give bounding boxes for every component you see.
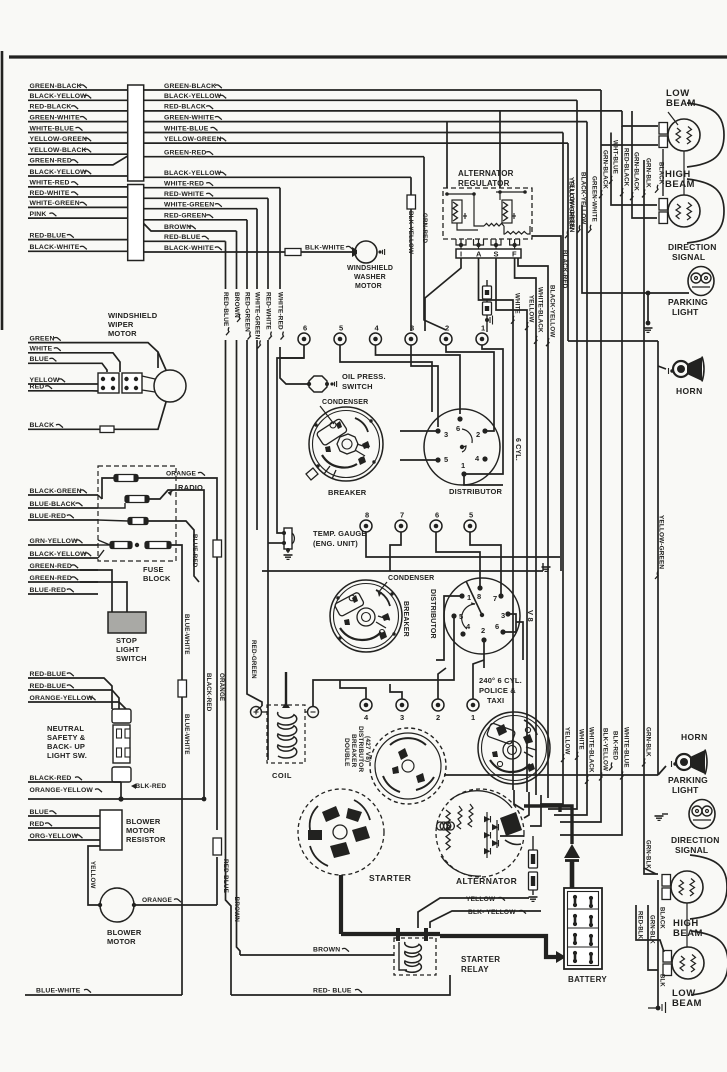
wire regulator I to harness [425,258,461,331]
svg-text:ALTERNATOR: ALTERNATOR [458,169,514,178]
wire BLACK-YELLOW (engine side) [144,176,411,178]
wire BROWN (engine side) [144,224,237,232]
fuse 4 [110,542,132,549]
svg-text:NEUTRAL: NEUTRAL [47,724,84,733]
svg-text:RED-GREEN: RED-GREEN [164,213,206,220]
svg-text:A: A [476,250,482,259]
wire BROWN vertical [236,231,238,289]
wire between lamps [683,151,685,195]
wire RED-BLUE long vertical to bottom [226,340,232,995]
wire BLACK-RED drop [532,236,561,571]
connector on ORANGE wire lower [213,838,222,855]
terminal 6 V8 row [430,520,442,532]
wire BLACK-YELLOW drop [548,100,577,809]
terminal 5 ignition row [334,333,346,345]
svg-text:LIGHT: LIGHT [672,307,699,317]
svg-text:2: 2 [476,430,480,439]
svg-text:GRN-BLK: GRN-BLK [649,915,655,944]
svg-text:WHITE-BLUE: WHITE-BLUE [623,727,630,768]
svg-text:HORN: HORN [676,386,703,396]
svg-text:BLACK-GREEN: BLACK-GREEN [30,488,82,495]
svg-text:BLACK-RED: BLACK-RED [30,775,72,782]
wire V8 dist 5 down [453,616,455,652]
svg-text:TAXI: TAXI [487,696,504,705]
breaker housing tab [306,468,318,480]
svg-text:BLACK: BLACK [659,907,665,929]
wire regulator A down [479,258,514,790]
wire WHITE-BLUE (engine side) [144,132,563,134]
svg-text:BLUE: BLUE [30,809,50,816]
svg-text:F: F [512,250,517,259]
fuse 5 [145,542,171,549]
svg-text:YELLOW-BLACK: YELLOW-BLACK [30,147,87,154]
svg-text:WHITE-BLACK: WHITE-BLACK [537,287,544,333]
svg-text:BLUE: BLUE [30,356,50,363]
coil minus terminal [308,707,319,718]
wire RED-BLACK (engine side) [144,110,622,112]
svg-text:COIL: COIL [272,771,292,780]
wire GREEN-BLACK (engine side) [144,89,601,91]
wire WHITE-RED (engine side) [144,187,280,189]
wire distributor 6cyl tail [464,474,503,485]
stop light switch [108,612,146,633]
wire between lower lamps [686,903,688,947]
svg-text:4: 4 [466,622,471,631]
svg-text:BREAKER: BREAKER [328,488,367,497]
svg-text:WHITE-RED: WHITE-RED [164,181,204,188]
wire GREEN-RED to stop light switch [80,570,112,612]
svg-text:240° 6 CYL.: 240° 6 CYL. [479,676,522,685]
svg-text:WHITE: WHITE [514,293,521,314]
wire YELLOW-GREEN drop [567,143,569,341]
wire GREEN-RED (left column) [28,156,128,165]
oil pressure switch [309,376,327,392]
horn (lower) [676,754,692,770]
wire WHITE-RED (left column) [28,186,128,188]
svg-text:3: 3 [400,713,404,722]
svg-text:DIRECTION: DIRECTION [668,242,717,252]
svg-text:DISTRIBUTOR: DISTRIBUTOR [429,589,436,639]
terminal 7 V8 row [395,520,407,532]
fusible link chain above terminal 1 [486,280,488,332]
direction signal / parking lamp (top) [688,267,714,296]
wire regulator to bus link 1 [446,122,448,188]
relay feed wires [418,898,529,928]
wire terminal 7 down [390,532,401,571]
svg-text:BLUE-BLACK: BLUE-BLACK [30,501,76,508]
wire V8 dist 3/6 to right [503,614,516,632]
wire coil minus up to V8 distributor [313,652,454,706]
svg-text:1: 1 [461,461,465,470]
wire V8 dist 2 down [483,640,485,668]
breaker rim details (V8) [336,596,339,599]
wire terminal 4 run [376,345,461,414]
svg-text:RED-BLUE: RED-BLUE [222,859,229,893]
svg-text:GRN-BLACK: GRN-BLACK [633,152,640,191]
wire WHITE-GREEN (engine side) [144,208,257,210]
wire RED-BLUE bottom run [231,975,450,995]
svg-text:5: 5 [469,511,473,520]
svg-text:GRN-BLK: GRN-BLK [645,158,652,188]
wire BLUE-WHITE bottom run [25,994,182,996]
svg-text:GRN-YELLOW: GRN-YELLOW [30,538,79,545]
svg-text:SIGNAL: SIGNAL [672,252,705,262]
wire BLUE-RED (fuse block feed) [28,593,98,595]
svg-text:LIGHT SW.: LIGHT SW. [47,751,87,760]
svg-text:ORANGE: ORANGE [218,673,225,701]
wire BLUE-RED (fuse block feed) [28,519,98,521]
wire terminal 6 down [436,532,480,588]
bulkhead connector bar upper [128,85,144,181]
wire RED-BLACK drop [622,111,658,126]
wiper connector block left [98,373,119,393]
svg-text:DISTRIBUTOR: DISTRIBUTOR [357,726,364,772]
wire YELLOW-GREEN (engine side) [144,142,568,144]
wire BLACK-WHITE (left column) [28,250,128,252]
ground at parking lamp [644,327,653,329]
svg-text:V 8: V 8 [526,610,535,622]
wire GREEN-WHITE (left column) [28,121,128,123]
svg-text:DISTRIBUTOR: DISTRIBUTOR [449,487,502,496]
wire RED-BLUE (engine side) [144,240,226,242]
wire YELLOW-BLACK (left column) [28,153,128,155]
svg-text:GREEN-RED: GREEN-RED [164,150,206,157]
svg-text:POLICE &: POLICE & [479,686,516,695]
svg-text:RED-BLUE: RED-BLUE [30,683,67,690]
wire yellow run to relay [523,806,525,810]
svg-text:S: S [494,250,499,259]
alternator regulator dashed box [443,188,532,239]
svg-text:2: 2 [445,324,449,333]
svg-text:BLOCK: BLOCK [143,574,171,583]
terminal 1 ignition row [476,333,488,345]
wire WHITE wiper [28,353,120,372]
terminal 8 V8 row [360,520,372,532]
svg-text:RESISTOR: RESISTOR [126,835,166,844]
wire BLUE-BLACK (fuse block feed) [28,507,98,509]
svg-text:5: 5 [444,455,448,464]
svg-text:BREAKER: BREAKER [350,734,357,768]
wire lower terminal 4 up [340,680,366,699]
terminal 6 ignition row [298,333,310,345]
svg-text:RED-BLUE: RED-BLUE [30,232,67,239]
wire WHITE-RED lower to oil switch [280,347,309,384]
svg-text:WHITE: WHITE [578,729,585,750]
svg-text:ORANGE: ORANGE [166,471,196,478]
svg-text:GREEN: GREEN [30,335,55,342]
wire lower terminal 3 up [390,684,402,699]
svg-text:2: 2 [481,626,485,635]
svg-text:LIGHT: LIGHT [116,645,140,654]
wire BLACK-GREEN (fuse block feed) [28,494,98,496]
svg-text:BEAM: BEAM [672,998,702,1009]
svg-text:BLACK-YELLOW: BLACK-YELLOW [30,169,88,176]
alternator body [436,789,524,877]
svg-text:BLUE-WHITE: BLUE-WHITE [183,714,190,755]
wire BLACK-YELLOW (left column) [28,99,128,101]
svg-text:BLK: BLK [659,974,665,987]
direction signal headlamp (lower) [662,875,671,887]
svg-text:WHITE-GREEN: WHITE-GREEN [254,292,261,340]
svg-text:YELLOW: YELLOW [89,861,96,889]
wire V8 dist 1 to left [436,596,462,660]
wire mid horizontal run [262,570,543,572]
svg-text:6: 6 [435,511,439,520]
svg-text:WIPER: WIPER [108,320,134,329]
svg-text:PINK: PINK [30,211,47,218]
wire WHITE-RED vertical [279,188,281,289]
svg-text:BLACK-YELLOW: BLACK-YELLOW [164,93,222,100]
svg-text:BLACK-YELLOW: BLACK-YELLOW [549,285,556,337]
fuse block dashed box [98,466,176,561]
wire high-beam stub 1 [611,133,657,206]
svg-text:MOTOR: MOTOR [107,937,136,946]
svg-text:RED: RED [30,384,45,391]
svg-text:BLK- YELLOW: BLK- YELLOW [468,909,516,916]
wire BLUE (blower) [28,815,100,817]
wire terminal 8 down [366,532,560,557]
wire into fuse4 [98,540,110,545]
breaker points detail (6cyl) [355,444,369,456]
connector on BLACK-YELLOW regulator wire [407,195,416,209]
wire BLACK-YELLOW to regulator area [410,177,412,331]
svg-text:GRN-BLACK: GRN-BLACK [602,150,609,189]
wire BLACK-YELLOW (left column) [28,175,128,177]
wire WHITE-GREEN vertical [256,209,258,289]
condenser pointer [320,406,334,424]
svg-text:GRN-BLK: GRN-BLK [645,840,651,869]
svg-text:BLUE-WHITE: BLUE-WHITE [36,988,81,995]
starter motor [298,789,384,875]
breaker points detail (V8) [376,616,390,628]
svg-text:DIRECTION: DIRECTION [671,835,720,845]
connector on BLUE-WHITE [178,680,187,697]
svg-text:GREEN-WHITE: GREEN-WHITE [30,114,81,121]
wire RED-WHITE lower run [267,340,269,760]
wire terminal 1 run [466,345,503,474]
svg-text:GREEN-RED: GREEN-RED [30,575,72,582]
wire fuse5 to BLUE-WHITE vertical [171,545,182,680]
terminal 3 ignition row [405,333,417,345]
wire GRN-BLACK lamp stub [601,144,658,146]
heavy output wire to battery arrow [524,806,560,812]
connector on ORANGE wire upper [213,540,222,557]
svg-text:WHITE-GREEN: WHITE-GREEN [30,200,80,207]
wire direction-signal feed [657,341,659,775]
svg-text:RED-BLUE: RED-BLUE [164,234,201,241]
svg-text:BROWN: BROWN [313,947,340,954]
svg-text:BROWN: BROWN [233,897,240,923]
svg-text:BLK-WHITE: BLK-WHITE [305,245,345,252]
wire terminal 5 down [470,532,501,596]
svg-text:1: 1 [471,713,475,722]
terminal 2 lower row [432,699,444,711]
temp gauge (engine unit) [284,528,292,549]
regulator left relay coil [452,200,462,223]
regulator resistor 1 [484,223,504,226]
low beam headlamp (lower) [663,951,672,963]
svg-text:BLACK: BLACK [30,422,55,429]
wiper connector block right [122,373,142,393]
wire terminal 6 run [280,345,304,358]
svg-text:WHITE-RED: WHITE-RED [277,292,284,330]
ground mid run [542,566,551,568]
breaker plate V8 [330,580,402,652]
svg-text:RELAY: RELAY [461,965,489,974]
svg-text:BLK-YELLOW: BLK-YELLOW [602,728,609,771]
svg-text:6 CYL.: 6 CYL. [514,438,521,461]
terminal 5 V8 row [464,520,476,532]
distributor V8 contacts [459,593,464,598]
wire BLACK-WHITE to washer motor [284,251,356,253]
wire lower terminal 1 up [473,660,484,699]
svg-text:RED-WHITE: RED-WHITE [265,292,272,330]
svg-text:RED- BLUE: RED- BLUE [313,988,352,995]
wire parking light feed [582,205,689,293]
wire coil feed horizontal [237,671,287,673]
terminal 4 ignition row [370,333,382,345]
svg-text:GRN-BLK: GRN-BLK [645,727,652,757]
alternator output stub [500,835,524,837]
svg-text:8: 8 [365,511,369,520]
svg-text:WHITE-RED: WHITE-RED [30,180,70,187]
wire PINK (left column) [28,217,128,219]
svg-text:I: I [460,250,462,259]
svg-text:4: 4 [375,324,380,333]
svg-text:RED-WHITE: RED-WHITE [164,191,204,198]
svg-text:4: 4 [364,713,369,722]
fuse 3 [128,518,148,525]
svg-text:8: 8 [477,592,481,601]
svg-text:GREEN-BLACK: GREEN-BLACK [30,83,82,90]
wire YELLOW to relay [408,805,466,807]
svg-text:SWITCH: SWITCH [116,654,147,663]
regulator terminal strip I A S F [456,249,521,258]
svg-text:BLACK-WHITE: BLACK-WHITE [30,244,80,251]
wire RED-GREEN vertical [246,220,248,289]
svg-text:BATTERY: BATTERY [568,975,607,984]
distributor V8 rotor arrow [466,581,482,615]
wire temp gauge feed upper [277,358,304,533]
fuse 1 [114,475,138,482]
wire parking ground stub [647,293,649,322]
wire GREEN-RED to regulator area [424,157,446,330]
wire RED (blower) [28,827,100,829]
svg-text:RED-BLACK: RED-BLACK [623,148,630,187]
wire small cartridge connectors near battery [532,836,534,850]
starter relay dashed box [394,938,436,975]
wire RED-BLACK (left column) [28,110,128,112]
wire regulator to bus link 2 [499,111,501,188]
wiper inline fuse [100,426,114,433]
svg-text:WINDSHIELD: WINDSHIELD [108,311,158,320]
wire lower terminal 2 up [438,668,446,699]
wire RED-WHITE vertical [267,198,269,289]
svg-text:5: 5 [339,324,343,333]
svg-text:CONDENSER: CONDENSER [388,575,434,582]
svg-text:ORG-YELLOW: ORG-YELLOW [30,833,79,840]
breaker plate 6 cyl [309,407,383,481]
terminal 3 lower row [396,699,408,711]
svg-text:(ENG. UNIT): (ENG. UNIT) [313,539,358,548]
svg-text:BLACK-WHITE: BLACK-WHITE [164,245,214,252]
wire BLACK-YELLOW (engine side) [144,99,577,101]
svg-text:YELLOW-GREEN: YELLOW-GREEN [164,136,222,143]
svg-text:WHITE-BLACK: WHITE-BLACK [588,727,595,773]
svg-text:GREEN-RED: GREEN-RED [30,563,72,570]
svg-text:PARKING: PARKING [668,297,708,307]
wire YELLOW-GREEN (left column) [28,142,128,144]
svg-text:7: 7 [493,594,497,603]
svg-text:BLACK-YELLOW: BLACK-YELLOW [30,93,88,100]
distributor 6 cyl body [424,409,500,485]
svg-text:3: 3 [501,611,505,620]
svg-text:STARTER: STARTER [461,955,500,964]
svg-text:RED-BLUE: RED-BLUE [30,671,67,678]
svg-text:BLOWER: BLOWER [107,928,142,937]
svg-text:2: 2 [436,713,440,722]
regulator terminal combs [456,239,466,245]
wire BLACK wiper to motor [114,402,166,429]
police taxi distributor body [478,712,550,784]
svg-text:ORANGE-YELLOW: ORANGE-YELLOW [30,787,94,794]
svg-text:BLUE-RED: BLUE-RED [30,587,67,594]
svg-text:BLACK-YELLOW: BLACK-YELLOW [30,551,88,558]
svg-text:ORANGE: ORANGE [142,897,172,904]
wire WHITE-BLUE (left column) [28,132,128,134]
wire BLACK-WHITE (engine side) [144,251,284,253]
low beam headlamp (top) [659,123,668,135]
svg-text:BACK- UP: BACK- UP [47,742,85,751]
starter relay cable bar [341,932,440,936]
wiper motor [154,370,186,402]
wire ORG-YELLOW (blower) [28,839,100,841]
regulator internal wires [457,223,478,230]
svg-text:BLACK-RED: BLACK-RED [205,673,212,712]
wire WHITE-BLUE drop [540,133,563,805]
wire regulator F down [515,258,536,795]
svg-text:BLACK-RED: BLACK-RED [561,250,568,289]
wire fuse1 to ORANGE vertical [138,478,217,538]
wire BLUE wiper [28,363,107,372]
regulator resistor 2 [505,231,527,234]
wire regulator case down [518,258,548,798]
svg-text:HORN: HORN [681,732,708,742]
svg-text:WHITE-BLUE: WHITE-BLUE [30,125,75,132]
wire terminal 3 run [411,345,438,427]
bulkhead connector bar lower [128,185,144,261]
svg-text:BLK-YELLOW: BLK-YELLOW [407,211,414,254]
terminal 1 lower row [467,699,479,711]
parking / direction lamp (lower) [689,800,715,829]
wire GREEN-BLACK (left column) [28,89,128,91]
svg-text:YELLOW-GREEN: YELLOW-GREEN [658,515,665,569]
regulator top bus wires [447,193,474,195]
wire WHITE-GREEN (left column) [28,206,128,208]
svg-text:RED-BLK: RED-BLK [637,911,643,940]
wire GREEN-RED (fuse block feed) [28,569,98,571]
regulator right relay coil [502,200,512,223]
svg-text:4: 4 [475,454,480,463]
wire YELLOW mid vertical [514,790,524,810]
svg-text:3: 3 [444,430,448,439]
wire RED-BLUE vertical [225,241,227,289]
svg-text:DOUBLE: DOUBLE [343,738,350,767]
wire WHITE-GREEN lower run [256,340,258,530]
wire GREEN-WHITE (engine side) [144,121,587,123]
distributor V8 body [444,578,520,654]
svg-text:RED-GREEN: RED-GREEN [250,640,257,679]
